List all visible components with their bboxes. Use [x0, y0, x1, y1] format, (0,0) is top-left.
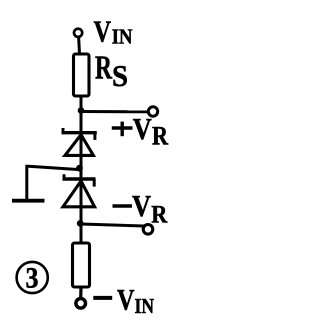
wire node B to ground	[27, 166, 80, 200]
label VIN top	[94, 13, 133, 48]
terminal -VR	[143, 225, 153, 235]
wire R2 to terminal	[79, 288, 83, 298]
label -VIN	[93, 283, 154, 318]
figure number 3	[17, 262, 48, 295]
svg-text:V: V	[133, 111, 153, 146]
wire node C to -VR terminal	[81, 224, 144, 226]
terminal +VR	[148, 107, 157, 116]
resistor RS	[74, 54, 90, 96]
ground	[12, 199, 45, 203]
node A junction dot	[78, 107, 85, 114]
svg-text:3: 3	[26, 262, 39, 295]
wire node A to +VR terminal	[81, 110, 148, 113]
resistor R2	[73, 243, 90, 287]
svg-text:V: V	[132, 188, 152, 223]
svg-text:V: V	[117, 283, 135, 316]
svg-text:R: R	[95, 50, 112, 87]
wire D1 to D2 through node B	[80, 154, 83, 224]
label -VR	[113, 188, 169, 229]
svg-text:IN: IN	[135, 294, 155, 318]
svg-text:S: S	[112, 58, 128, 93]
svg-text:R: R	[152, 121, 168, 150]
wire RS to node A	[80, 97, 83, 156]
label +VR	[112, 111, 168, 150]
label RS	[95, 50, 128, 93]
terminal -VIN bottom	[76, 299, 86, 309]
zener diode D2	[63, 174, 96, 207]
zener diode D1	[62, 128, 97, 155]
svg-text:R: R	[151, 201, 168, 228]
node C junction dot	[77, 220, 84, 227]
wire top stub	[77, 37, 81, 55]
node B junction dot	[76, 165, 83, 172]
terminal VIN top	[74, 29, 82, 37]
svg-text:IN: IN	[112, 25, 133, 49]
svg-text:V: V	[94, 13, 112, 48]
wire node C to R2	[80, 224, 83, 243]
